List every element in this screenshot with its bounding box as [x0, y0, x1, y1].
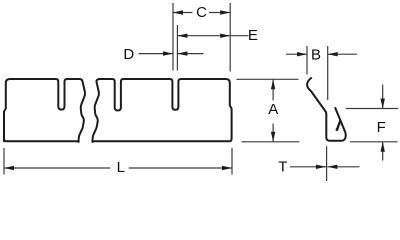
svg-text:E: E	[248, 27, 258, 44]
svg-text:T: T	[278, 158, 287, 175]
svg-text:D: D	[123, 46, 134, 63]
svg-text:B: B	[311, 47, 321, 64]
svg-text:C: C	[196, 4, 207, 21]
svg-text:L: L	[117, 159, 125, 176]
svg-text:F: F	[377, 119, 386, 136]
svg-text:A: A	[268, 101, 278, 118]
